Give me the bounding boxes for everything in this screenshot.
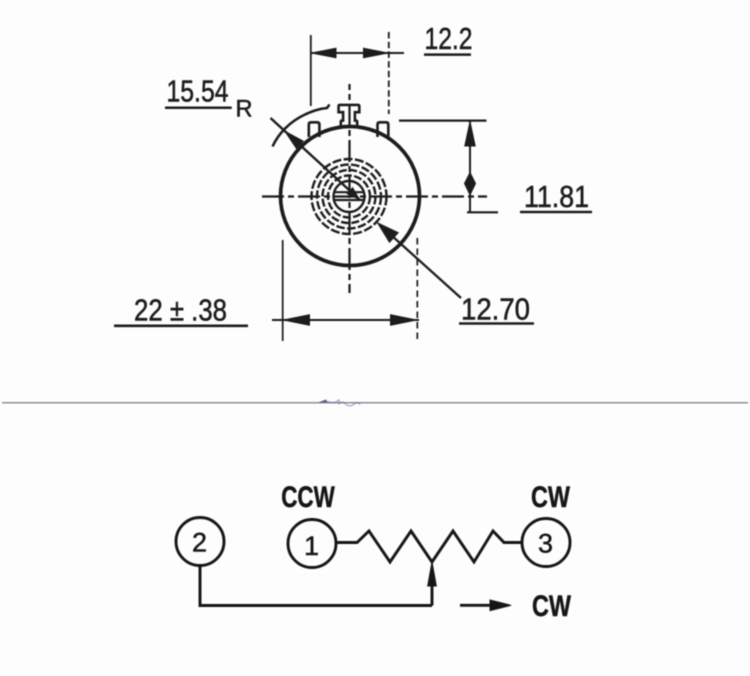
svg-text:R: R (236, 96, 253, 123)
svg-text:CCW: CCW (281, 481, 335, 514)
svg-text:12.70: 12.70 (461, 292, 530, 327)
svg-text:CW: CW (531, 481, 570, 514)
svg-text:15.54: 15.54 (167, 74, 229, 109)
svg-text:3: 3 (538, 528, 553, 558)
svg-text:1: 1 (304, 531, 319, 561)
svg-text:12.2: 12.2 (425, 21, 473, 56)
svg-text:CW: CW (532, 590, 571, 623)
svg-text:11.81: 11.81 (524, 179, 589, 214)
svg-text:22 ± .38: 22 ± .38 (134, 293, 227, 328)
svg-text:2: 2 (192, 527, 207, 557)
